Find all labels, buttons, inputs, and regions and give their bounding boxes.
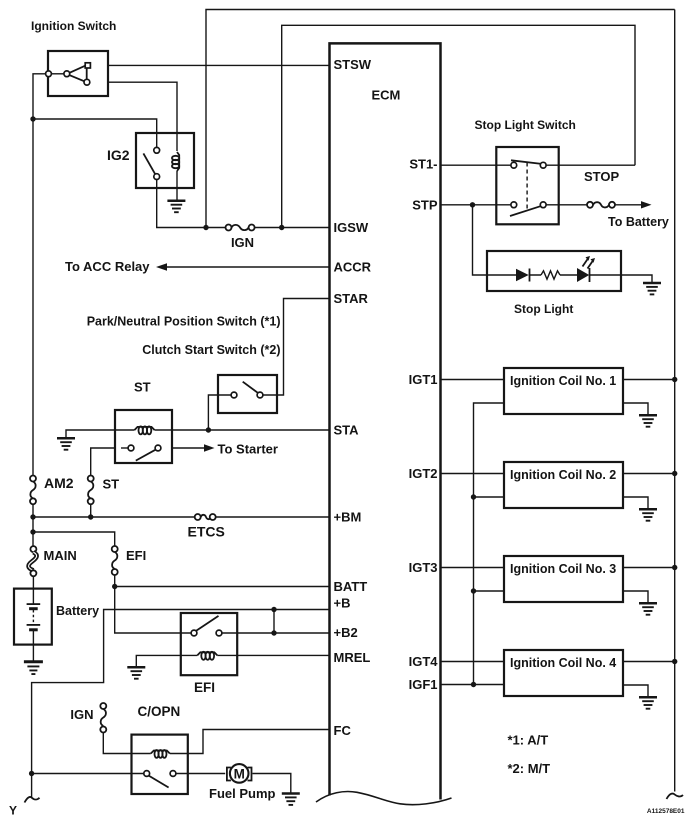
wire: IGSW line from fuse to ECM bbox=[255, 227, 330, 229]
stop light switch bbox=[496, 147, 558, 224]
svg-text:ACCR: ACCR bbox=[334, 260, 372, 275]
wire: ST1- line from ECM to stop light switch bbox=[441, 164, 497, 166]
label: pin IGT2 bbox=[409, 466, 438, 481]
node: junction IGF bus / IGF1 line bbox=[471, 682, 476, 687]
wire: IGF1 line ECM to coil 4 bbox=[441, 684, 505, 686]
wire: STAR line from ECM down to clutch start switch bbox=[263, 299, 330, 396]
wire: second bus from IGN junction up and across to ST1- bbox=[282, 25, 635, 227]
wire: coil 3 supply to right bus bbox=[623, 567, 675, 569]
svg-text:STSW: STSW bbox=[334, 57, 372, 72]
wire: IGT3 line ECM to coil 3 bbox=[441, 567, 505, 569]
ignition coil no. 1 box bbox=[504, 368, 623, 414]
label: connector Y bbox=[9, 804, 17, 818]
svg-text:IGT3: IGT3 bbox=[409, 560, 438, 575]
wire: +B branch squiggle end (connector Y) bbox=[25, 797, 40, 803]
fuse ST (vertical) bbox=[88, 476, 94, 505]
node: junction +B / link bbox=[271, 607, 276, 612]
svg-text:ETCS: ETCS bbox=[188, 524, 225, 540]
ignition switch bbox=[46, 51, 108, 96]
svg-text:A112578E01: A112578E01 bbox=[647, 808, 685, 815]
ECM box (torn bottom) bbox=[316, 43, 452, 804]
wire: fuel pump to ground bbox=[253, 774, 291, 794]
wire: clutch start switch to STA junction bbox=[208, 395, 231, 430]
wire: +BM line to ETCS fuse and ECM bbox=[33, 516, 195, 518]
arrow: to ACC relay arrowhead bbox=[156, 263, 167, 270]
wire: ETCS fuse to ECM +BM pin bbox=[216, 516, 330, 518]
label: EFI relay name bbox=[194, 680, 215, 695]
wire: IG2 relay coil to ground bbox=[176, 171, 178, 201]
svg-text:ECM: ECM bbox=[372, 88, 401, 103]
svg-text:FC: FC bbox=[334, 723, 352, 738]
node: junction EFI fuse branch / BATT line bbox=[112, 584, 117, 589]
svg-text:Y: Y bbox=[9, 804, 17, 818]
svg-text:IGF1: IGF1 bbox=[409, 677, 438, 692]
wire: branch to EFI fuse bbox=[33, 532, 115, 546]
wire: STSW line from ignition switch to ECM bbox=[90, 64, 329, 66]
wire: MREL line from EFI relay coil to ECM bbox=[237, 654, 329, 656]
node: junction IGF bus / coil 3 bbox=[471, 588, 476, 593]
svg-text:STOP: STOP bbox=[584, 169, 619, 184]
label: Clutch Start Switch (*2) bbox=[142, 343, 280, 357]
label: pin STSW bbox=[334, 57, 372, 72]
svg-text:IGN: IGN bbox=[70, 707, 93, 722]
wire: coil 4 supply to right bus bbox=[623, 661, 675, 663]
svg-text:EFI: EFI bbox=[126, 548, 146, 563]
ground: stop light ground bbox=[643, 283, 661, 294]
wire: +B line from ECM down-left to fuel pump circuit bbox=[32, 610, 330, 799]
label: pin +B bbox=[334, 596, 351, 611]
ignition coil no. 4 box bbox=[504, 650, 623, 696]
LED stop light bulb bbox=[577, 268, 589, 282]
wire: stop light to ground bbox=[621, 275, 652, 283]
label: Fuel Pump bbox=[209, 786, 276, 801]
ground: coil 1 ground bbox=[639, 415, 657, 426]
clutch start switch bbox=[218, 375, 277, 413]
label: To ACC Relay bbox=[65, 259, 150, 274]
diode D1 bbox=[516, 269, 529, 282]
stop light assembly bbox=[487, 251, 621, 291]
svg-text:IGSW: IGSW bbox=[334, 220, 369, 235]
label: pin STP bbox=[412, 198, 438, 213]
label: pin MREL bbox=[334, 650, 371, 665]
label: drawing number A112578E01 bbox=[647, 808, 685, 815]
label: pin +B2 bbox=[334, 625, 358, 640]
node: junction right bus / coil 4 bbox=[672, 659, 677, 664]
relay EFI bbox=[181, 613, 237, 675]
wire: coil 1 supply to right bus bbox=[623, 379, 675, 381]
label: pin IGT1 bbox=[409, 372, 438, 387]
wire: STA line ST relay to ECM bbox=[172, 429, 330, 431]
svg-text:STP: STP bbox=[412, 198, 438, 213]
wire: stop light switch to second bus bbox=[559, 164, 635, 166]
ground: battery ground bbox=[24, 662, 43, 674]
label: Stop Light Switch title bbox=[475, 118, 576, 132]
label: ST relay name bbox=[134, 380, 151, 395]
label: To Starter bbox=[218, 442, 278, 457]
arrow: to starter arrowhead bbox=[204, 444, 215, 451]
svg-text:STA: STA bbox=[334, 423, 360, 438]
svg-text:To Starter: To Starter bbox=[218, 442, 278, 457]
label: pin +BM bbox=[334, 510, 362, 525]
ground: EFI relay coil ground bbox=[127, 667, 145, 678]
node: junction right bus / coil 3 bbox=[672, 565, 677, 570]
ground: coil 4 ground bbox=[639, 697, 657, 708]
ground: coil 2 ground bbox=[639, 509, 657, 520]
label: note *2 M/T bbox=[508, 761, 551, 776]
ground: fuel pump ground bbox=[282, 794, 300, 805]
label: pin BATT bbox=[334, 579, 368, 594]
label: pin IGT4 bbox=[409, 654, 439, 669]
label: pin IGSW bbox=[334, 220, 369, 235]
wire: fuel pump feed from +B branch to C/OPN relay bbox=[32, 773, 132, 775]
svg-text:MAIN: MAIN bbox=[44, 548, 77, 563]
wire: coil 2 ground lead bbox=[623, 497, 648, 509]
relay ST bbox=[115, 410, 172, 463]
arrow: to battery arrowhead bbox=[641, 201, 652, 208]
svg-text:*1: A/T: *1: A/T bbox=[508, 733, 549, 748]
svg-text:To Battery: To Battery bbox=[608, 215, 669, 229]
svg-text:IGT2: IGT2 bbox=[409, 466, 438, 481]
node: junction +B branch / fuel pump feed bbox=[29, 771, 34, 776]
svg-text:Battery: Battery bbox=[56, 604, 99, 618]
fuse IGN (horizontal) on IGSW line bbox=[226, 225, 255, 231]
wire: branch to IG2 relay switch contact bbox=[33, 119, 157, 148]
wire: coil 1 ground lead bbox=[623, 403, 648, 415]
node: junction right bus / coil 1 bbox=[672, 377, 677, 382]
node: junction STP / stop light branch bbox=[470, 202, 475, 207]
label: Battery name bbox=[56, 604, 99, 618]
resistor in stop light bbox=[541, 271, 560, 279]
node: junction left bus / +BM bbox=[30, 514, 35, 519]
svg-text:IGN: IGN bbox=[231, 235, 254, 250]
wire: ST relay switch contact down to ST fuse bbox=[91, 448, 129, 476]
ignition coil no. 2 box bbox=[504, 462, 623, 508]
svg-text:Ignition Coil No. 4: Ignition Coil No. 4 bbox=[510, 656, 616, 670]
svg-text:IGT1: IGT1 bbox=[409, 372, 438, 387]
ground: ST relay coil ground bbox=[57, 438, 75, 449]
label: ETCS fuse name bbox=[188, 524, 225, 540]
label: pin FC bbox=[334, 723, 352, 738]
wire: IGT2 line ECM to coil 2 bbox=[441, 473, 505, 475]
node: junction left bus / IG2 branch bbox=[30, 116, 35, 121]
wire: STP line from ECM to stop light switch bbox=[441, 204, 497, 206]
svg-text:Stop Light: Stop Light bbox=[514, 302, 573, 316]
node: junction STA line / clutch switch branch bbox=[206, 427, 211, 432]
wire: IGT1 line ECM to coil 1 bbox=[441, 379, 505, 381]
svg-text:MREL: MREL bbox=[334, 650, 371, 665]
svg-text:+B: +B bbox=[334, 596, 351, 611]
wire: left bus AM2 to +BM junction and down to MAIN link bbox=[32, 504, 34, 546]
wire: STP branch down to stop light bbox=[473, 205, 488, 275]
label: pin IGF1 bbox=[409, 677, 438, 692]
svg-text:STAR: STAR bbox=[334, 291, 369, 306]
svg-text:AM2: AM2 bbox=[44, 475, 74, 491]
wire: STOP fuse to battery arrow line bbox=[615, 204, 641, 206]
svg-text:Stop Light Switch: Stop Light Switch bbox=[475, 118, 576, 132]
svg-text:Park/Neutral Position Switch (: Park/Neutral Position Switch (*1) bbox=[87, 315, 281, 329]
svg-text:EFI: EFI bbox=[194, 680, 215, 695]
node: junction IGF bus / coil 2 bbox=[471, 494, 476, 499]
node: junction ST fuse / +BM bbox=[88, 514, 93, 519]
label: ECM title bbox=[372, 88, 401, 103]
label: pin STAR bbox=[334, 291, 369, 306]
label: Ignition Switch title bbox=[31, 19, 116, 33]
fuse STOP (horizontal) bbox=[587, 202, 615, 208]
ignition coil no. 3 box bbox=[504, 556, 623, 602]
label: Stop Light name bbox=[514, 302, 573, 316]
svg-text:ST1-: ST1- bbox=[409, 157, 437, 172]
wire: battery to ground bbox=[32, 645, 34, 662]
svg-text:To ACC Relay: To ACC Relay bbox=[65, 259, 150, 274]
label: MAIN fusible link name bbox=[44, 548, 77, 563]
wire: ignition switch IG2 contact to IG2 relay coil bbox=[89, 82, 177, 151]
wire: ACCR line from ECM bbox=[167, 266, 330, 268]
wire: EFI relay coil to ground bbox=[136, 655, 181, 667]
fuse ETCS (horizontal) bbox=[195, 514, 216, 520]
label: note *1 A/T bbox=[508, 733, 549, 748]
svg-text:Clutch Start Switch (*2): Clutch Start Switch (*2) bbox=[142, 343, 280, 357]
svg-text:C/OPN: C/OPN bbox=[138, 704, 181, 719]
svg-text:M: M bbox=[234, 766, 245, 781]
label: pin IGT3 bbox=[409, 560, 438, 575]
node: junction IGSW line / second bus bbox=[279, 225, 284, 230]
node: junction right bus / coil 2 bbox=[672, 471, 677, 476]
svg-text:ST: ST bbox=[103, 477, 120, 492]
wire: link between +B and +B2 bbox=[273, 610, 275, 634]
wire: coil 2 supply to right bus bbox=[623, 473, 675, 475]
wire: coil 2 IGF tap bbox=[474, 496, 505, 498]
svg-text:IGT4: IGT4 bbox=[409, 654, 439, 669]
ground: coil 3 ground bbox=[639, 603, 657, 614]
svg-text:*2: M/T: *2: M/T bbox=[508, 761, 551, 776]
label: AM2 fuse name bbox=[44, 475, 74, 491]
wire: stop light switch to STOP fuse bbox=[559, 204, 587, 206]
wire: IG2 relay output down to IGSW line bbox=[157, 179, 226, 227]
wire: C/OPN relay output to fuel pump bbox=[188, 773, 225, 775]
wire: ignition switch feed down the left bus bbox=[33, 74, 46, 476]
wire: coil 3 IGF tap bbox=[474, 590, 505, 592]
relay IG2 bbox=[136, 133, 194, 188]
wire: +B2 line from EFI relay to ECM bbox=[222, 632, 330, 634]
wire: To Starter line from ST relay bbox=[161, 447, 204, 449]
wire: top bus from IGN junction up and across to right coil bus bbox=[206, 10, 675, 228]
wire: IGN fuse to C/OPN relay coil bbox=[103, 733, 131, 754]
wire: IGT4 line ECM to coil 4 bbox=[441, 661, 505, 663]
fuse AM2 (vertical) on left bus bbox=[30, 476, 36, 505]
svg-text:BATT: BATT bbox=[334, 579, 368, 594]
label: STOP fuse name bbox=[584, 169, 619, 184]
label: Park/Neutral Position Switch (*1) bbox=[87, 315, 281, 329]
svg-text:IG2: IG2 bbox=[107, 147, 130, 163]
svg-text:Ignition Coil No. 2: Ignition Coil No. 2 bbox=[510, 468, 616, 482]
svg-text:Ignition Coil No. 1: Ignition Coil No. 1 bbox=[510, 374, 616, 388]
wire: FC line from C/OPN relay coil to ECM bbox=[188, 730, 330, 754]
wire: ST relay coil to ground bbox=[66, 430, 115, 438]
fuse IGN (vertical, C/OPN circuit) bbox=[100, 703, 106, 733]
label: IGN fuse name (top) bbox=[231, 235, 254, 250]
wire: coil 3 ground lead bbox=[623, 591, 648, 603]
ground: IG2 relay coil ground bbox=[167, 201, 185, 212]
svg-text:Ignition Switch: Ignition Switch bbox=[31, 19, 116, 33]
label: IG2 relay name bbox=[107, 147, 130, 163]
wire: right bus torn end squiggle bbox=[667, 794, 684, 799]
wire: coil 4 ground lead bbox=[623, 685, 648, 697]
svg-text:Ignition Coil No. 3: Ignition Coil No. 3 bbox=[510, 562, 616, 576]
label: pin STA bbox=[334, 423, 360, 438]
node: junction left bus / EFI branch bbox=[30, 529, 35, 534]
relay C/OPN bbox=[132, 735, 188, 794]
svg-text:+BM: +BM bbox=[334, 510, 362, 525]
label: pin ACCR bbox=[334, 260, 372, 275]
wire: BATT line to ECM bbox=[115, 586, 330, 588]
fuel pump motor bbox=[227, 764, 252, 783]
wire: IGF common bus down the coils bbox=[474, 403, 505, 685]
node: junction IGSW line / top bus bbox=[203, 225, 208, 230]
wire: MAIN link to battery bbox=[32, 576, 34, 588]
label: To Battery bbox=[608, 215, 669, 229]
label: EFI fuse name bbox=[126, 548, 146, 563]
label: IGN fuse name (bottom) bbox=[70, 707, 93, 722]
fuse EFI (vertical) bbox=[112, 546, 118, 575]
wire: ST fuse to +BM line bbox=[90, 504, 92, 517]
fusible link MAIN (vertical) bbox=[29, 546, 37, 576]
wire: right ignition-coil supply bus bbox=[674, 10, 676, 792]
svg-text:+B2: +B2 bbox=[334, 625, 358, 640]
svg-text:ST: ST bbox=[134, 380, 151, 395]
label: C/OPN relay name bbox=[138, 704, 181, 719]
label: pin ST1- bbox=[409, 157, 437, 172]
node: junction +B2 / link bbox=[271, 630, 276, 635]
wire: EFI fuse down to BATT line and EFI relay contact bbox=[115, 575, 181, 633]
label: ST fuse name bbox=[103, 477, 120, 492]
svg-text:Fuel Pump: Fuel Pump bbox=[209, 786, 276, 801]
battery bbox=[14, 589, 52, 645]
